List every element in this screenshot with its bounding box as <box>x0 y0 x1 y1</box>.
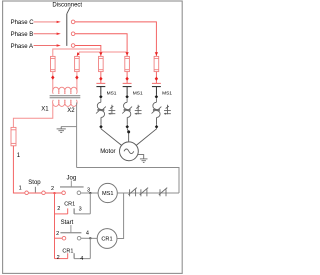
arrow into fuse F5 <box>155 52 158 55</box>
pushbutton Stop <box>25 180 45 194</box>
junction node 4 <box>89 237 91 239</box>
wire fuse F5 to contact MS1-3 <box>155 72 157 84</box>
fuse F1 <box>51 56 56 71</box>
contact MS1-1 <box>96 83 116 98</box>
svg-text:CR1: CR1 <box>64 202 75 208</box>
wire CR1 coil up to MS1 rung <box>117 193 124 239</box>
pushbutton Start <box>60 220 81 240</box>
fuse F3 <box>99 56 104 71</box>
svg-text:MS1: MS1 <box>107 91 117 97</box>
wire transformer bus 2 <box>77 52 127 56</box>
wire phase C right <box>75 22 156 57</box>
svg-text:MS1: MS1 <box>162 91 172 97</box>
svg-text:CR1: CR1 <box>101 237 112 243</box>
svg-text:Phase C: Phase C <box>11 20 35 26</box>
svg-text:Jog: Jog <box>67 175 77 181</box>
fuse F4 <box>125 56 130 71</box>
junction node 2 <box>54 192 56 194</box>
wire OL1 to motor <box>100 117 102 124</box>
wire phase B right <box>75 34 127 57</box>
transformer T1 secondary winding <box>53 100 77 107</box>
label Disconnect <box>52 3 82 14</box>
svg-text:Start: Start <box>61 220 74 226</box>
pushbutton Jog <box>60 175 84 194</box>
disconnect linkage bar <box>66 14 68 46</box>
overload contact OL2-NC <box>140 188 148 197</box>
arrow into fuse F2 <box>77 52 80 55</box>
contact CR1-b row <box>55 249 91 263</box>
wire fuse F1 to transformer primary <box>52 72 54 91</box>
contact MS1-3 <box>152 83 172 98</box>
wire fuse F2 to transformer primary <box>76 72 78 91</box>
disconnect switch pole B blade arrow <box>57 33 61 35</box>
disconnect switch pole A contact circle <box>71 44 75 48</box>
arrow below fuse F2 <box>75 75 78 79</box>
svg-text:2: 2 <box>56 231 59 237</box>
wire jog to MS1 coil <box>81 192 98 194</box>
svg-text:X2: X2 <box>67 108 75 114</box>
junction node 3 <box>89 192 91 194</box>
arrow into fuse F4 <box>125 52 128 55</box>
wire OL3 to motor <box>156 117 158 124</box>
wire start to CR1 coil <box>81 237 97 239</box>
svg-text:2: 2 <box>51 186 54 192</box>
arrow below fuse F5 <box>155 77 158 81</box>
wire phase C left <box>34 21 57 23</box>
overload heater OL2 <box>122 99 141 118</box>
wire rail to start <box>55 237 63 239</box>
wire OL2 to motor <box>126 117 128 124</box>
wire X2 to ground tap <box>61 126 76 128</box>
overload heater OL1 <box>96 99 115 118</box>
disconnect switch pole C contact circle <box>71 20 75 24</box>
wire CR1-a to node 3 <box>89 193 91 214</box>
arrow below fuse F1 <box>51 75 54 79</box>
svg-text:Phase B: Phase B <box>11 32 34 38</box>
disconnect switch pole B contact circle <box>71 32 75 36</box>
disconnect switch pole C blade arrow <box>57 21 61 23</box>
svg-text:4: 4 <box>80 256 83 262</box>
svg-text:CR1: CR1 <box>62 249 73 255</box>
fuse F2 <box>75 56 80 71</box>
svg-text:X1: X1 <box>41 106 49 112</box>
svg-text:2: 2 <box>57 255 60 261</box>
ground at transformer secondary <box>57 127 66 133</box>
svg-text:Stop: Stop <box>28 180 41 186</box>
wire phase A left <box>34 45 57 47</box>
svg-text:2: 2 <box>57 206 60 212</box>
wire X1 lead to control fuse <box>13 103 52 127</box>
svg-text:1: 1 <box>19 185 22 191</box>
motor M1 <box>100 142 138 161</box>
wire transformer bus 1 <box>53 49 101 56</box>
wire X2 lead down <box>76 103 78 168</box>
svg-text:4: 4 <box>86 231 89 237</box>
transformer T1 primary winding <box>53 87 77 94</box>
arrow into fuse F3 <box>99 52 102 55</box>
fuse F5 <box>154 56 159 71</box>
svg-text:MS1: MS1 <box>102 191 114 197</box>
svg-text:MS1: MS1 <box>133 91 143 97</box>
ground at motor <box>138 155 148 163</box>
svg-text:3: 3 <box>79 207 82 213</box>
svg-text:Phase A: Phase A <box>11 44 33 50</box>
svg-text:Disconnect: Disconnect <box>52 3 82 9</box>
contact CR1-a row <box>55 202 91 214</box>
contact MS1-2 <box>123 83 143 98</box>
wire MS1 coil to overload contacts <box>117 192 179 194</box>
wire fuse F4 to contact MS1-2 <box>126 72 128 84</box>
wire phase A right <box>75 46 101 57</box>
wire rail node 2 down <box>54 193 56 259</box>
overload contact OL3-NC <box>159 188 167 197</box>
coil MS1 <box>98 183 117 202</box>
svg-text:Motor: Motor <box>100 149 115 155</box>
wire X2 return rail <box>77 168 179 194</box>
junction dot motor middle lead <box>127 130 130 133</box>
transformer T1 core <box>50 95 81 97</box>
coil CR1 <box>97 229 117 249</box>
wire control fuse to Stop <box>13 146 61 193</box>
wire phase B left <box>34 33 57 35</box>
disconnect switch pole A blade arrow <box>57 44 61 46</box>
arrow below fuse F3 <box>99 77 102 81</box>
wire CR1-b to node 4 <box>89 238 91 258</box>
arrow below fuse F4 <box>125 77 128 81</box>
overload contact OL1-NC <box>128 188 136 197</box>
wire fuse F3 to contact MS1-1 <box>100 72 102 84</box>
control fuse F6 <box>11 127 16 145</box>
overload heater OL3 <box>152 99 171 118</box>
